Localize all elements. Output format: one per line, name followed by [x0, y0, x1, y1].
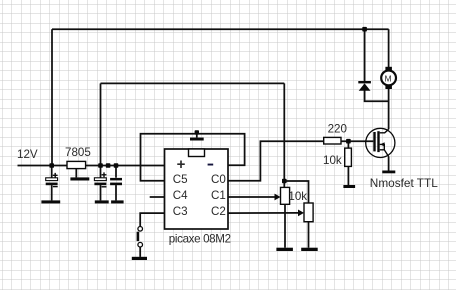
IC notch — [189, 149, 205, 157]
ground bar below 10k pulldown — [343, 185, 355, 188]
svg-text:C3: C3 — [173, 205, 188, 218]
svg-text:C1: C1 — [211, 189, 226, 202]
wire mosfet source to ground — [388, 157, 390, 171]
capacitor ceramic: top plate — [110, 178, 122, 181]
wire pot1 bottom to ground — [284, 204, 286, 247]
wire C3 to switch — [140, 213, 164, 226]
wire diode bottom branch — [365, 91, 389, 102]
junction top rail / diode — [362, 27, 367, 32]
MOSFET source internal path — [380, 150, 389, 157]
wire 220 resistor to gate — [341, 140, 373, 142]
resistor 10k pulldown body — [345, 148, 352, 166]
svg-text:Nmosfet TTL: Nmosfet TTL — [370, 176, 438, 190]
ground bar below switch — [132, 257, 147, 260]
ground bar below cap2 — [95, 200, 109, 203]
svg-text:M: M — [385, 74, 392, 84]
svg-text:C2: C2 — [211, 205, 226, 218]
wire pot2 bottom to ground — [308, 222, 310, 248]
wire cap3 bottom stub — [115, 185, 117, 200]
capacitor electrolytic input: hollow plate — [46, 178, 58, 181]
ground bar below cap3 — [111, 200, 124, 203]
junction C0 / 5V cross dot — [282, 179, 287, 184]
IC pin label - — [208, 164, 214, 166]
wire 0V net C5 pin — [141, 134, 245, 181]
junction 12V rail / outer loop — [49, 163, 54, 168]
resistor 220 body — [324, 137, 341, 144]
ground bar below pot1 — [276, 248, 293, 251]
wire loop2 5V right vertical to pot1 — [283, 83, 285, 187]
wire outer left vertical — [51, 29, 53, 165]
switch actuator bar — [137, 232, 140, 241]
wire switch to ground — [139, 247, 141, 257]
wire C1 to pot1 wiper — [228, 196, 277, 198]
wire 10k pulldown bottom stub — [347, 166, 349, 185]
diode flyback cathode bar — [358, 81, 371, 83]
svg-text:10k: 10k — [323, 154, 342, 167]
ground bar below MOSFET — [382, 171, 395, 174]
capacitor output minus sign — [102, 186, 107, 187]
capacitor electrolytic input: solid plate — [46, 183, 58, 186]
svg-text:C0: C0 — [211, 173, 226, 186]
capacitor input plus sign — [53, 173, 58, 178]
capacitor electrolytic output: hollow plate — [94, 178, 106, 181]
capacitor ceramic: bottom plate — [110, 183, 122, 186]
junction gate / 10k pulldown — [346, 139, 351, 144]
switch pushbutton bottom contact — [138, 242, 143, 247]
capacitor input minus sign — [53, 186, 58, 187]
motor bottom terminal — [385, 86, 392, 90]
svg-text:picaxe 08M2: picaxe 08M2 — [169, 232, 231, 245]
switch pushbutton top contact — [138, 227, 143, 232]
wire 7805 ground stub — [75, 169, 77, 178]
wire motor bottom lead to mosfet drain — [388, 89, 390, 129]
junction rail / cap3 — [114, 163, 119, 168]
svg-text:+: + — [177, 156, 186, 173]
regulator 7805 body — [67, 161, 86, 168]
wire cap2 top stub — [100, 166, 102, 178]
ground bar below cap1 — [41, 200, 60, 203]
ground bar below pot2 — [301, 248, 318, 251]
svg-text:7805: 7805 — [65, 146, 91, 159]
wire cap1 bottom stub — [51, 185, 53, 200]
potentiometer 1 body — [281, 187, 290, 204]
wire motor top lead — [388, 29, 390, 67]
MOSFET substrate stub — [380, 144, 385, 149]
motor top terminal — [385, 67, 392, 71]
MOSFET substrate arrow — [380, 142, 384, 146]
wire cap1 top stub — [51, 166, 53, 178]
wire C0 to gate resistor — [228, 141, 324, 181]
wire loop2 5V top horizontal — [101, 82, 285, 84]
wire 12V rail — [18, 165, 165, 167]
potentiometer 1 wiper arrowhead — [275, 194, 281, 201]
IC picaxe 08M2 body — [165, 149, 229, 229]
diode flyback anode triangle — [359, 83, 371, 90]
wire top +12V rail — [52, 28, 389, 30]
capacitor electrolytic output: solid plate — [94, 183, 106, 186]
wire cap3 top stub — [115, 166, 117, 178]
MOSFET body circle — [366, 128, 395, 157]
wire 0V ground stub — [196, 134, 198, 138]
wire C4 stub — [150, 196, 165, 198]
potentiometer 2 wiper arrowhead — [298, 210, 304, 217]
svg-text:12V: 12V — [17, 148, 38, 161]
potentiometer 2 body — [304, 203, 313, 222]
wire 10k pulldown top stub — [347, 141, 349, 148]
svg-text:10k: 10k — [288, 190, 307, 203]
wire diode top branch — [364, 29, 366, 81]
svg-text:220: 220 — [328, 122, 347, 135]
junction 0V ground tap — [195, 130, 199, 134]
motor body circle — [381, 71, 396, 86]
wire 5V branch to pot2 — [284, 181, 308, 203]
wire C2 to pot2 wiper — [228, 212, 300, 214]
svg-text:C5: C5 — [173, 173, 188, 186]
capacitor output plus sign — [102, 172, 107, 177]
ground bar below 7805 — [70, 177, 89, 180]
junction rail / loop2 / cap2 — [98, 163, 103, 168]
wire cap2 bottom stub — [100, 185, 102, 200]
svg-text:C4: C4 — [173, 189, 188, 202]
MOSFET drain internal path — [380, 129, 389, 133]
ground bar 0V net (above IC) — [190, 138, 204, 141]
junction rail dot — [106, 163, 111, 168]
wire loop2 5V left vertical — [100, 83, 102, 165]
MOSFET gate bar — [373, 132, 375, 151]
MOSFET channel bar — [377, 131, 379, 152]
